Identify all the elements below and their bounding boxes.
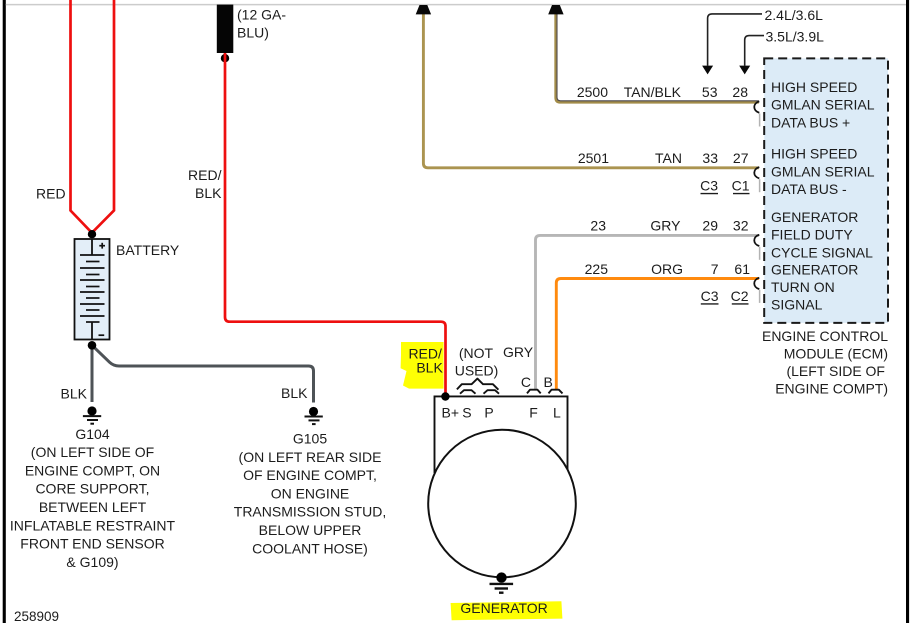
- svg-text:HIGH SPEED: HIGH SPEED: [771, 146, 857, 162]
- svg-text:FIELD DUTY: FIELD DUTY: [771, 227, 853, 243]
- svg-text:BETWEEN LEFT: BETWEEN LEFT: [39, 499, 147, 515]
- svg-text:3.5L/3.9L: 3.5L/3.9L: [766, 29, 825, 45]
- pointer 3.5L/3.9L: [745, 36, 764, 66]
- label G105 block: [234, 431, 386, 557]
- junction dot generator B+: [441, 392, 449, 400]
- svg-text:2.4L/3.6L: 2.4L/3.6L: [765, 7, 824, 23]
- svg-text:G105: G105: [293, 431, 327, 447]
- off-page arrow up (TAN): [416, 5, 431, 14]
- off-page arrow up (TAN/BLK): [548, 5, 563, 14]
- svg-text:GENERATOR: GENERATOR: [460, 600, 547, 616]
- svg-text:DATA BUS -: DATA BUS -: [771, 181, 847, 197]
- svg-text:C3: C3: [700, 178, 718, 194]
- wire RED battery feed left: [71, 0, 92, 232]
- svg-text:C: C: [521, 374, 531, 390]
- svg-text:L: L: [553, 404, 561, 420]
- ground G104: [83, 406, 101, 423]
- label G104 block: [10, 426, 176, 570]
- svg-text:C2: C2: [731, 288, 749, 304]
- battery top stub: [91, 239, 93, 255]
- svg-text:ENGINE COMPT): ENGINE COMPT): [775, 380, 888, 396]
- ECM pin connector paren (row4): [754, 278, 759, 289]
- svg-text:TRANSMISSION STUD,: TRANSMISSION STUD,: [234, 504, 386, 520]
- svg-text:23: 23: [590, 218, 606, 234]
- svg-text:HIGH SPEED: HIGH SPEED: [771, 79, 857, 95]
- wire ORG circuit 225: [556, 279, 759, 390]
- highlight RED/BLK (yellow): [401, 342, 444, 389]
- svg-text:CYCLE SIGNAL: CYCLE SIGNAL: [771, 244, 873, 260]
- svg-text:BATTERY: BATTERY: [116, 242, 180, 258]
- wire TAN/BLK circuit 2500: [556, 14, 759, 103]
- connector bump pin L (B): [549, 390, 563, 394]
- wire TAN circuit 2501: [423, 14, 758, 168]
- svg-text:TAN/BLK: TAN/BLK: [624, 84, 682, 100]
- svg-text:(ON LEFT SIDE OF: (ON LEFT SIDE OF: [31, 444, 154, 460]
- svg-text:32: 32: [733, 218, 749, 234]
- svg-text:2500: 2500: [577, 84, 608, 100]
- generator body circle: [428, 430, 576, 578]
- svg-text:B+: B+: [442, 404, 460, 420]
- svg-text:BLK: BLK: [195, 185, 222, 201]
- svg-text:B: B: [544, 374, 553, 390]
- ECM pin connector paren (row3): [754, 235, 759, 246]
- ECM pin connector paren (row2): [754, 167, 759, 178]
- svg-text:225: 225: [585, 261, 609, 277]
- ECM pin connector paren (row1): [754, 101, 759, 112]
- svg-text:GENERATOR: GENERATOR: [771, 261, 858, 277]
- wire BLK battery negative to G104: [91, 345, 94, 402]
- svg-text:GMLAN SERIAL: GMLAN SERIAL: [771, 97, 875, 113]
- ECM module box: [764, 58, 888, 323]
- svg-text:ENGINE CONTROL: ENGINE CONTROL: [762, 328, 888, 344]
- junction dot below fusible link: [221, 54, 229, 62]
- svg-text:28: 28: [732, 84, 748, 100]
- svg-text:RED/: RED/: [188, 167, 222, 183]
- svg-text:ORG: ORG: [651, 261, 683, 277]
- svg-text:DATA BUS +: DATA BUS +: [771, 114, 850, 130]
- svg-text:BLU): BLU): [237, 24, 269, 40]
- svg-text:SIGNAL: SIGNAL: [771, 297, 823, 313]
- svg-text:27: 27: [733, 150, 749, 166]
- wire RED battery feed right: [93, 0, 115, 232]
- wire BLK battery negative to G105: [92, 345, 314, 402]
- generator connector housing: [435, 396, 568, 473]
- svg-text:258909: 258909: [14, 609, 59, 623]
- svg-text:(LEFT SIDE OF: (LEFT SIDE OF: [786, 363, 885, 379]
- battery minus mark: [99, 334, 105, 336]
- battery plates short: [86, 262, 100, 323]
- svg-text:FRONT END SENSOR: FRONT END SENSOR: [20, 536, 164, 552]
- svg-text:GENERATOR: GENERATOR: [771, 209, 858, 225]
- svg-text:OF ENGINE COMPT,: OF ENGINE COMPT,: [243, 467, 377, 483]
- svg-text:7: 7: [711, 261, 719, 277]
- svg-text:MODULE (ECM): MODULE (ECM): [784, 345, 888, 361]
- svg-text:ON ENGINE: ON ENGINE: [271, 485, 350, 501]
- junction dot battery negative: [88, 341, 97, 350]
- svg-text:TAN: TAN: [655, 150, 682, 166]
- svg-text:(NOT: (NOT: [459, 345, 494, 361]
- connector bump pin P: [484, 390, 500, 394]
- svg-text:GRY: GRY: [503, 344, 534, 360]
- junction dot battery positive: [88, 230, 96, 238]
- svg-text:GMLAN SERIAL: GMLAN SERIAL: [771, 163, 875, 179]
- svg-text:2501: 2501: [578, 150, 609, 166]
- svg-text:BLK: BLK: [281, 385, 308, 401]
- svg-text:BLK: BLK: [61, 385, 88, 401]
- svg-text:INFLATABLE RESTRAINT: INFLATABLE RESTRAINT: [10, 517, 176, 533]
- battery box: [75, 239, 110, 340]
- svg-text:G104: G104: [75, 426, 109, 442]
- svg-text:(ON LEFT REAR SIDE: (ON LEFT REAR SIDE: [239, 449, 382, 465]
- connector brace over S and P (NOT USED): [457, 379, 499, 390]
- svg-text:GRY: GRY: [650, 218, 681, 234]
- svg-text:53: 53: [702, 84, 718, 100]
- frame top rule: [6, 4, 906, 6]
- svg-text:S: S: [462, 404, 471, 420]
- svg-text:P: P: [484, 404, 493, 420]
- wire RED/BLK fusible link to generator B+: [225, 53, 446, 396]
- svg-text:BELOW UPPER: BELOW UPPER: [259, 522, 362, 538]
- svg-text:USED): USED): [455, 363, 499, 379]
- wire GRY circuit 23: [536, 235, 759, 389]
- svg-text:C1: C1: [732, 178, 750, 194]
- pointer 2.4L/3.6L: [708, 14, 762, 66]
- frame left border: [3, 0, 6, 623]
- svg-text:RED: RED: [36, 186, 66, 202]
- svg-text:F: F: [529, 404, 538, 420]
- svg-text:C3: C3: [701, 288, 719, 304]
- battery plates long: [80, 255, 105, 316]
- highlight GENERATOR (yellow): [451, 601, 563, 620]
- fusible link bar (12 GA-BLU): [217, 5, 234, 53]
- svg-text:COOLANT HOSE): COOLANT HOSE): [252, 540, 368, 556]
- svg-text:& G109): & G109): [66, 554, 118, 570]
- generator ground: [490, 572, 514, 592]
- battery bottom stub: [91, 322, 93, 339]
- svg-text:(12 GA-: (12 GA-: [237, 7, 286, 23]
- svg-text:61: 61: [734, 261, 750, 277]
- svg-text:TURN ON: TURN ON: [771, 279, 835, 295]
- wire TAN/BLK black tracer: [557, 14, 759, 101]
- connector bump pin S: [460, 390, 476, 394]
- svg-text:29: 29: [702, 218, 718, 234]
- svg-text:CORE SUPPORT,: CORE SUPPORT,: [35, 481, 149, 497]
- battery plus mark: [99, 245, 105, 247]
- svg-text:ENGINE COMPT, ON: ENGINE COMPT, ON: [25, 462, 160, 478]
- connector bump pin F (C): [527, 390, 541, 394]
- svg-text:33: 33: [702, 150, 718, 166]
- svg-text:BLK: BLK: [416, 360, 443, 376]
- frame right border: [906, 0, 909, 623]
- ground G105: [305, 407, 323, 424]
